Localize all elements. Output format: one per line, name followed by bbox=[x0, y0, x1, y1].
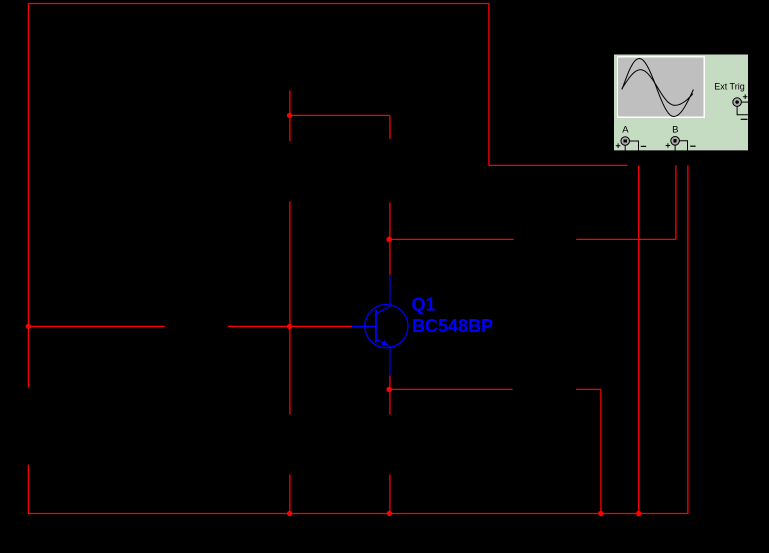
wire feed to scope A+ bbox=[489, 164, 627, 166]
channel A terminal bbox=[621, 137, 630, 146]
wire left column lower (V1 bottom lead) bbox=[27, 465, 29, 514]
Ext Trig plus sign bbox=[743, 94, 748, 99]
channel A lead bbox=[624, 145, 626, 151]
Q1 emitter diagonal bbox=[376, 339, 390, 347]
scope waveform small bbox=[622, 70, 693, 106]
junction bias column / feed bbox=[287, 113, 292, 118]
wire left column upper (V1 top lead) bbox=[27, 4, 29, 388]
wire base row right segment (C1 to base) bbox=[228, 325, 352, 327]
scope screen bbox=[618, 57, 704, 116]
scope screen white frame bbox=[617, 56, 705, 118]
transistor Q1 bbox=[352, 275, 493, 376]
svg-text:Q1: Q1 bbox=[412, 295, 436, 315]
wire emitter bypass drop to ground bbox=[600, 389, 602, 513]
junction bias column / ground rail bbox=[287, 511, 292, 516]
wire scope A- drop to ground bbox=[638, 165, 640, 513]
Q1 base bar bbox=[375, 310, 377, 343]
wire top rail bbox=[28, 3, 490, 5]
wire emitter row left segment (to CE) bbox=[390, 388, 513, 390]
channel B plus sign bbox=[666, 143, 671, 148]
wire emitter column upper (RE top lead) bbox=[389, 389, 391, 414]
Ext Trig plus lead bbox=[742, 101, 748, 103]
junction left column / base row bbox=[26, 324, 31, 329]
junction emitter column / emitter row bbox=[386, 387, 392, 393]
Q1 collector diagonal bbox=[376, 307, 390, 314]
junction bias column / base row bbox=[287, 324, 292, 329]
wire emitter column lower (RE to ground) bbox=[389, 475, 391, 514]
wire collector row left segment (to C2) bbox=[390, 238, 514, 240]
scope body bbox=[614, 55, 748, 152]
svg-text:A: A bbox=[622, 125, 629, 136]
wire bias-to-collector feed bbox=[290, 114, 390, 116]
Q1 emitter lead bbox=[389, 346, 391, 376]
wire collector column (RC to transistor) bbox=[389, 203, 391, 275]
wire bias column bottom (R2 to ground) bbox=[289, 475, 291, 514]
Ext Trig terminal bbox=[733, 98, 742, 107]
wire bias column stub above R1 bbox=[289, 91, 291, 142]
channel B terminal bbox=[671, 137, 680, 146]
svg-text:Ext Trig: Ext Trig bbox=[714, 82, 745, 92]
Q1 circle bbox=[365, 305, 408, 348]
oscilloscope XSC1 icon bbox=[614, 55, 748, 152]
wire collector row right segment (C2 to B+) bbox=[576, 238, 676, 240]
channel A minus hook bbox=[630, 141, 639, 151]
junction emitter column / ground rail bbox=[387, 511, 392, 516]
wire emitter stub to junction bbox=[389, 376, 391, 390]
wire base row left segment (to C1) bbox=[28, 325, 164, 327]
svg-text:B: B bbox=[672, 125, 678, 136]
channel A plus sign bbox=[616, 143, 621, 148]
Ext Trig minus hook bbox=[737, 107, 748, 115]
junction collector column / collector row bbox=[386, 237, 392, 243]
wire emitter row right segment (CE out) bbox=[576, 388, 601, 390]
Q1 base lead bbox=[352, 325, 376, 327]
wire right drop from top rail bbox=[488, 4, 490, 166]
junction A- drop / ground rail bbox=[636, 511, 641, 516]
channel B lead bbox=[674, 145, 676, 151]
wire scope B- drop to ground bbox=[687, 165, 689, 513]
Q1 collector lead bbox=[389, 275, 391, 307]
svg-text:BC548BP: BC548BP bbox=[412, 316, 493, 336]
wire bias column mid (R1 to R2) bbox=[289, 202, 291, 415]
wire collector column top (RC top lead) bbox=[389, 115, 391, 139]
channel B minus hook bbox=[679, 141, 687, 151]
Ext Trig minus sign bbox=[741, 118, 748, 120]
Q1 emitter arrow bbox=[382, 340, 390, 346]
wire scope B+ drop bbox=[675, 165, 677, 239]
scope waveform large bbox=[622, 59, 694, 117]
channel B minus sign bbox=[690, 145, 695, 147]
scope bottom border bbox=[614, 150, 748, 152]
channel A minus sign bbox=[641, 145, 646, 147]
junction bypass drop / ground rail bbox=[598, 511, 603, 516]
wire bottom ground rail bbox=[28, 513, 689, 515]
